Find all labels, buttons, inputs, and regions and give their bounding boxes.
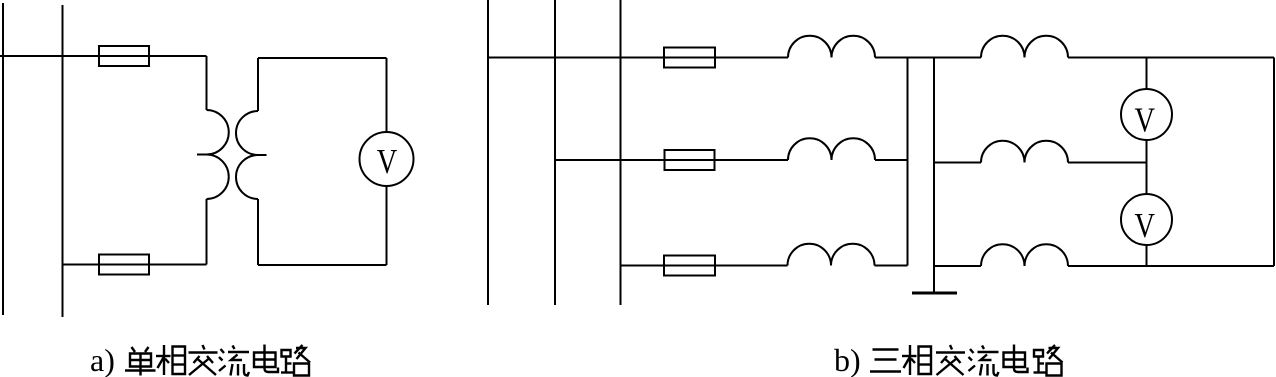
wire: secondary bottom drop (257, 199, 259, 265)
voltmeter PV1 circle (1121, 89, 1172, 140)
caption a) char 相 (156, 345, 185, 375)
caption b) char 三 (870, 350, 901, 372)
svg-text:a): a) (90, 342, 115, 377)
wire: bottom feeder from L2 (63, 264, 207, 266)
caption b) char 路 (1034, 345, 1063, 376)
fuse FU1 (99, 46, 149, 66)
star-point vertical right (grounded) (933, 58, 935, 294)
wire: top feeder from L1 (0, 55, 207, 57)
wire: row2 right from ground column (934, 162, 981, 164)
wire: primary bottom drop (206, 199, 208, 265)
wire: row2 to star point (875, 159, 908, 161)
bus line A (487, 0, 489, 305)
fuse FU3 (664, 48, 715, 68)
fuse FU5 (664, 256, 715, 276)
wire: row2 right to meters (1068, 162, 1147, 164)
transformer TV secondary winding (236, 111, 258, 199)
ground bar (912, 292, 957, 295)
inductor L3b row3 (981, 244, 1068, 266)
caption b) char 电 (1004, 345, 1028, 373)
bus line B (554, 0, 556, 305)
bus line L1 (2, 3, 4, 315)
inductor L1a row1 (788, 36, 875, 58)
svg-text:V: V (377, 142, 398, 181)
caption a) char 流 (219, 346, 249, 376)
wire: right edge (1273, 58, 1275, 267)
wire: row2 from bus B to inductor (555, 159, 788, 161)
wire: row3 from bus C to inductor (621, 265, 788, 267)
caption a) char 交 (189, 345, 218, 375)
wire: secondary loop top (258, 57, 387, 59)
wire: row1 from bus A to inductor (488, 57, 788, 59)
bus line C (620, 0, 622, 305)
wire: row3 right (1068, 265, 1274, 267)
wire: row1 right (1068, 57, 1274, 59)
fuse FU4 (665, 150, 715, 170)
caption b) char 交 (936, 345, 965, 375)
fuse FU2 (99, 255, 149, 275)
primary winding stub (197, 154, 207, 156)
inductor L2b row2 (981, 141, 1068, 163)
wire: row3 to star point (875, 265, 908, 267)
wire: meter column top (1146, 58, 1148, 90)
inductor L2a row2 (788, 138, 875, 160)
svg-text:b): b) (834, 342, 861, 377)
wire: secondary loop right lower (386, 186, 388, 265)
caption a) char 单 (125, 347, 156, 376)
wire: row1 mid (875, 57, 981, 59)
wire: meter column bottom (1146, 245, 1148, 267)
wire: primary top drop (206, 56, 208, 110)
voltmeter PV circle (360, 132, 414, 186)
svg-text:V: V (1134, 206, 1155, 245)
caption b) char 相 (902, 345, 931, 375)
wire: meter column mid lower (1146, 163, 1148, 195)
wire: meter column mid upper (1146, 140, 1148, 163)
wire: row3 right from ground column (934, 265, 981, 267)
star-point vertical left (907, 58, 909, 266)
inductor L3a row3 (788, 244, 875, 266)
secondary winding stub (258, 154, 267, 156)
wire: secondary top drop (257, 58, 259, 111)
caption a) char 路 (281, 345, 310, 376)
wire: secondary loop right upper (386, 58, 388, 132)
voltmeter PV2 circle (1121, 194, 1172, 245)
transformer TV primary winding (207, 110, 229, 199)
caption a) char 电 (254, 345, 278, 373)
wire: secondary loop bottom (258, 264, 387, 266)
bus line L2 (62, 5, 64, 317)
caption b) char 流 (969, 346, 999, 376)
svg-text:V: V (1134, 101, 1155, 140)
inductor L1b row1 (981, 36, 1068, 58)
